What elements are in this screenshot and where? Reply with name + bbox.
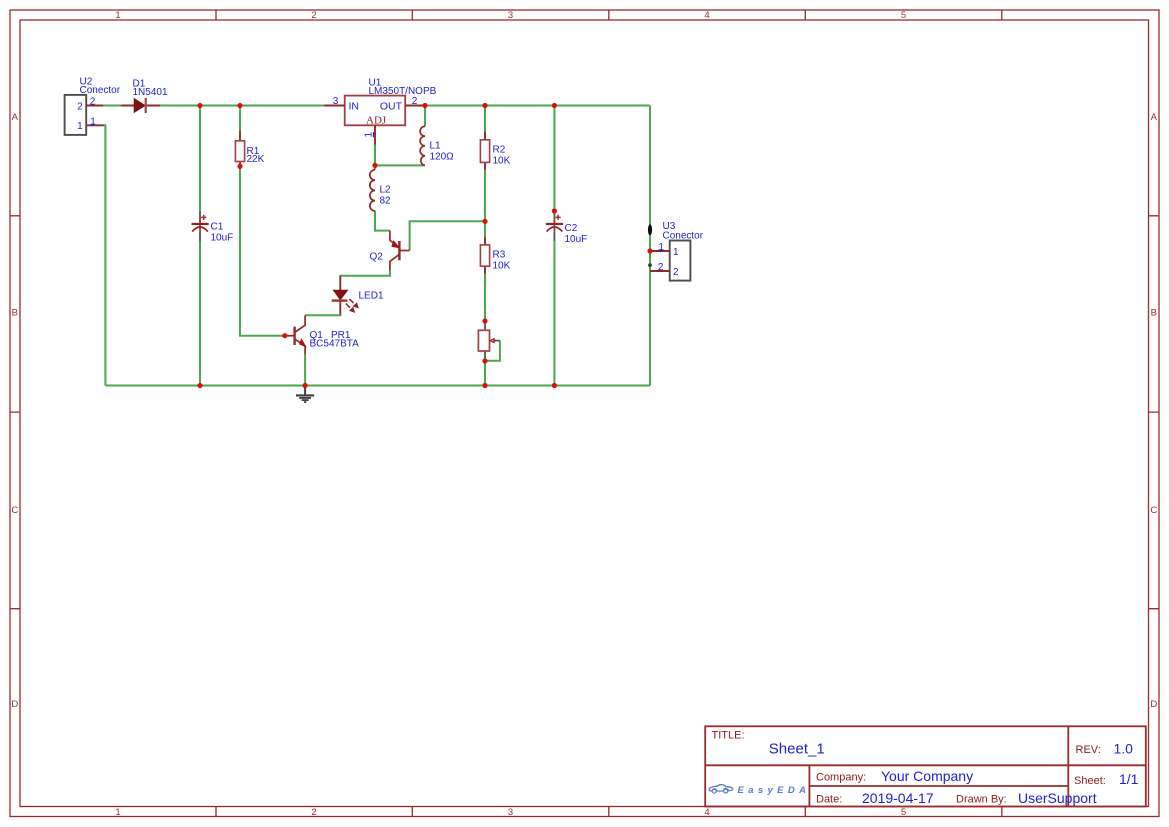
wire U2 pin1 down-left rail (104, 125, 105, 385)
inductor L2 82 (370, 170, 391, 211)
svg-text:OUT: OUT (380, 101, 403, 113)
wire D1 cathode to U1 IN (160, 105, 325, 107)
svg-text:2: 2 (77, 101, 83, 112)
svg-text:C1: C1 (211, 222, 224, 233)
svg-text:4: 4 (704, 807, 709, 818)
svg-text:REV:: REV: (1076, 744, 1101, 756)
svg-text:2: 2 (311, 10, 316, 21)
svg-text:2019-04-17: 2019-04-17 (862, 790, 934, 806)
wire L1 top stub (424, 106, 426, 127)
svg-text:IN: IN (349, 101, 360, 113)
svg-text:Date:: Date: (816, 794, 842, 806)
resistor R1 22K (235, 131, 264, 166)
svg-text:ADJ: ADJ (366, 114, 387, 126)
svg-text:LM350T/NOPB: LM350T/NOPB (369, 86, 437, 97)
wire R1 branch to Q1 base (240, 106, 285, 336)
svg-text:10K: 10K (493, 156, 511, 167)
svg-text:D: D (1150, 699, 1157, 710)
resistor R3 10K (480, 237, 510, 274)
wire R3 branch (484, 221, 486, 321)
svg-text:1: 1 (658, 242, 664, 253)
svg-text:3: 3 (508, 10, 513, 21)
potentiometer PR1 (478, 324, 500, 359)
svg-text:2: 2 (90, 97, 96, 108)
wire Q2 collector to LED anode (340, 271, 390, 277)
wire potentiometer wiper loop (487, 341, 500, 361)
title block (705, 726, 1146, 806)
svg-text:22K: 22K (247, 154, 265, 165)
wire C2 branch (553, 106, 555, 386)
svg-text:5: 5 (901, 807, 906, 818)
ground (296, 388, 314, 402)
svg-text:TITLE:: TITLE: (712, 730, 745, 742)
net marker ellipse on right rail (648, 224, 652, 235)
svg-text:L2: L2 (380, 185, 392, 196)
wire ADJ pin to node (374, 145, 376, 166)
svg-text:82: 82 (380, 196, 392, 207)
svg-text:120Ω: 120Ω (430, 152, 455, 163)
WIRES (103, 106, 650, 386)
svg-text:Company:: Company: (816, 772, 866, 784)
connector U2 (65, 77, 121, 135)
svg-text:3: 3 (333, 96, 339, 107)
svg-text:1: 1 (115, 807, 120, 818)
diode D1 1N5401 (121, 78, 168, 113)
wire R2 branch (484, 106, 486, 222)
svg-text:1/1: 1/1 (1119, 771, 1139, 787)
svg-text:R3: R3 (493, 250, 506, 261)
svg-text:1: 1 (90, 116, 96, 127)
svg-text:C: C (1150, 505, 1157, 516)
svg-text:1N5401: 1N5401 (133, 87, 168, 98)
capacitor C2 10uF (546, 214, 587, 246)
wire Q2 base riser (410, 221, 485, 250)
wire U1 OUT to top-right corner (423, 105, 650, 107)
svg-text:A: A (1151, 112, 1158, 123)
wire node to L2 top (374, 165, 376, 169)
svg-text:B: B (12, 307, 18, 318)
wire bottom rail (105, 385, 650, 387)
svg-text:A: A (12, 112, 19, 123)
svg-text:L1: L1 (430, 141, 442, 152)
svg-text:BC547BTA: BC547BTA (310, 338, 360, 349)
svg-text:R2: R2 (493, 145, 506, 156)
wire LED cathode to Q1 collector (305, 314, 340, 315)
svg-text:Sheet_1: Sheet_1 (769, 741, 825, 758)
transistor Q1 BC547BTA (286, 315, 359, 355)
svg-text:Sheet:: Sheet: (1074, 775, 1106, 787)
svg-text:UserSupport: UserSupport (1018, 790, 1097, 806)
transistor Q2 (370, 231, 410, 271)
wire U2 pin2 to D1 anode (103, 105, 121, 107)
wire Q1 emitter to ground rail (304, 355, 306, 386)
svg-text:3: 3 (508, 807, 513, 818)
svg-text:D: D (11, 699, 18, 710)
svg-text:2: 2 (673, 267, 679, 278)
svg-text:2: 2 (311, 807, 316, 818)
svg-text:Conector: Conector (663, 231, 704, 242)
svg-text:1: 1 (77, 121, 83, 132)
resistor R2 10K (480, 131, 510, 170)
svg-text:10uF: 10uF (565, 234, 588, 245)
svg-text:Conector: Conector (80, 85, 121, 96)
svg-text:1.0: 1.0 (1114, 741, 1134, 757)
wire C1 branch (199, 106, 201, 386)
svg-text:2: 2 (658, 262, 664, 273)
svg-text:5: 5 (901, 10, 906, 21)
svg-text:4: 4 (704, 10, 709, 21)
wire L2 bottom to Q2 emitter (375, 211, 390, 231)
LED LED1 (332, 276, 384, 315)
svg-text:Q2: Q2 (370, 252, 384, 263)
svg-text:1: 1 (673, 247, 679, 258)
svg-text:Your Company: Your Company (881, 768, 973, 784)
svg-text:10K: 10K (493, 261, 511, 272)
net marker small dot near U3 pin2 (648, 263, 652, 267)
wire right vertical rail (649, 106, 651, 386)
capacitor C1 10uF (192, 211, 234, 244)
op-amp-regulator U1 LM350T/NOPB (325, 77, 437, 144)
connector U3 (650, 221, 704, 281)
svg-text:B: B (1151, 307, 1157, 318)
svg-text:2: 2 (412, 96, 418, 107)
svg-text:C2: C2 (565, 223, 578, 234)
svg-text:Drawn By:: Drawn By: (956, 794, 1007, 806)
junction dots (197, 103, 652, 388)
EasyEDA logo (709, 785, 806, 797)
inductor L1 120ohm (420, 126, 454, 165)
svg-text:10uF: 10uF (211, 233, 234, 244)
svg-text:C: C (11, 505, 18, 516)
svg-text:LED1: LED1 (359, 291, 384, 302)
wire potentiometer to bottom rail (484, 361, 486, 386)
svg-text:1: 1 (115, 10, 120, 21)
wire L1 bottom to ADJ node (375, 164, 425, 166)
svg-text:EasyEDA: EasyEDA (738, 785, 807, 796)
